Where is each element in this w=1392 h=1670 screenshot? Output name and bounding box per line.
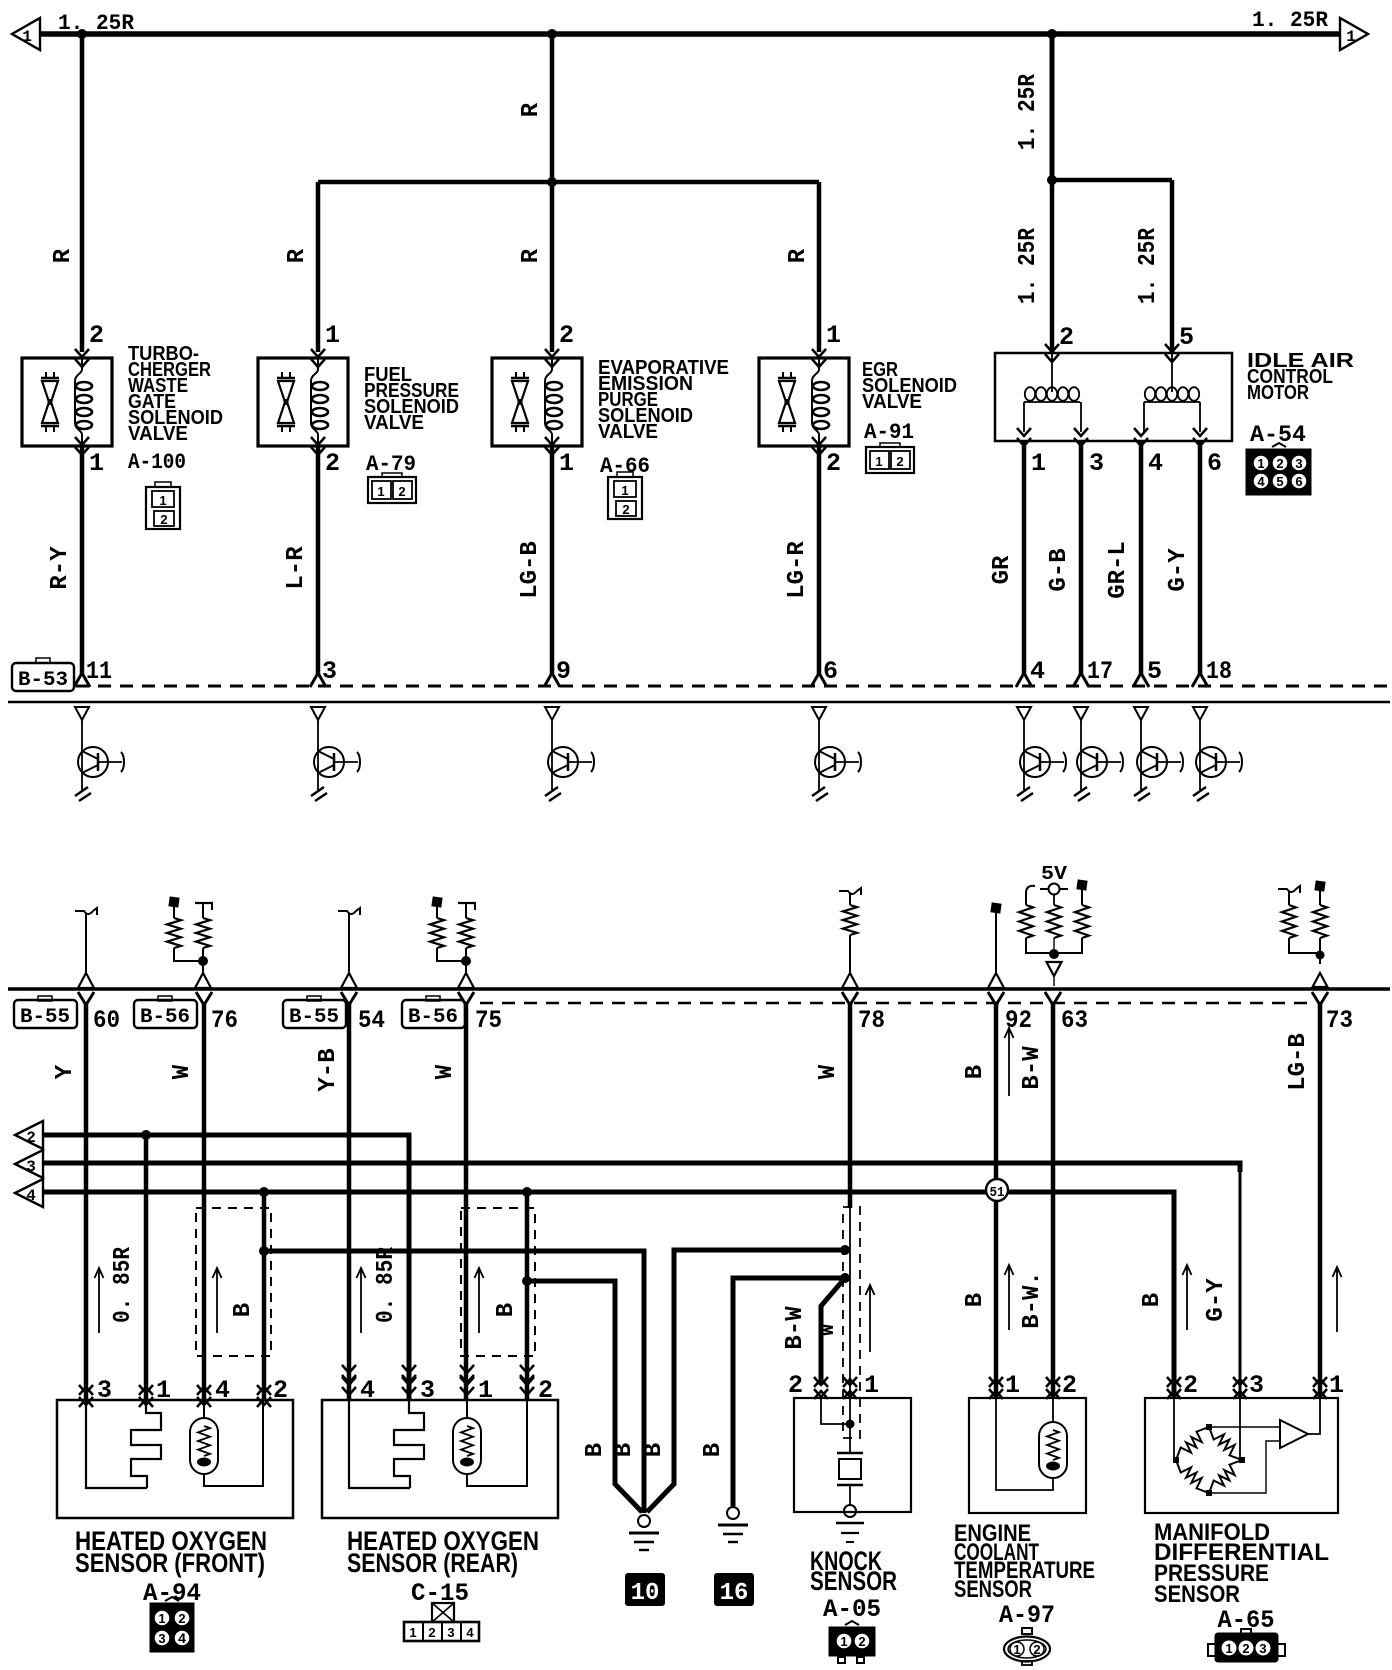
wire 1.25R to IAC pin2 (lower) xyxy=(1050,180,1055,352)
svg-text:63: 63 xyxy=(1061,1006,1088,1035)
label Y xyxy=(52,1064,79,1079)
ECU internal: resistor pair (pin 73) xyxy=(1278,880,1328,987)
svg-text:1: 1 xyxy=(409,1625,416,1640)
svg-text:A-66: A-66 xyxy=(600,454,650,479)
junction dot bus/IAC wire xyxy=(1047,29,1057,39)
component label KNOCK SENSOR xyxy=(810,1546,897,1596)
pin 3 (HO2S front) xyxy=(97,1376,112,1405)
pin 2 (ECT) xyxy=(1062,1371,1077,1400)
svg-text:75: 75 xyxy=(475,1006,502,1035)
wire R-Y (turbo to ECU pin 11) xyxy=(74,446,90,687)
label 1.25R (IAC left lower) xyxy=(1015,227,1042,304)
label B-W (ECT lower) xyxy=(1019,1271,1046,1329)
connector label B-55 (pin 54) xyxy=(283,996,346,1029)
svg-text:B: B xyxy=(700,1443,727,1457)
label W (pin 75 wire) xyxy=(432,1064,459,1079)
svg-text:17: 17 xyxy=(1087,657,1113,686)
label G-B xyxy=(1046,548,1073,591)
svg-text:1: 1 xyxy=(1031,449,1046,478)
pin 5 (IAC top) xyxy=(1179,323,1194,352)
svg-text:B-W: B-W xyxy=(782,1306,809,1350)
junction dot front B / ground lead xyxy=(259,1246,269,1256)
svg-text:3: 3 xyxy=(447,1625,454,1640)
svg-text:3: 3 xyxy=(1259,1641,1266,1656)
junction dot bus4 / HO2S front B xyxy=(259,1187,269,1197)
ECU internal: 5V supply node xyxy=(1040,884,1068,895)
label 0.85R (rear) xyxy=(373,1246,400,1323)
pin 1 (MDP) xyxy=(1329,1371,1344,1400)
splice 51 xyxy=(986,1179,1008,1201)
EGR solenoid valve A-91 xyxy=(759,349,849,455)
wire G-B (IAC to ECU pin 17) xyxy=(1073,441,1089,687)
svg-text:2: 2 xyxy=(160,512,167,527)
svg-text:1: 1 xyxy=(840,1634,847,1649)
pin 1 (ECT) xyxy=(1005,1371,1020,1400)
direction arrow (knock) xyxy=(866,1285,875,1352)
ECU driver transistor Q7 xyxy=(1134,707,1183,801)
svg-text:B: B xyxy=(1139,1293,1166,1307)
svg-text:VALVE: VALVE xyxy=(128,423,188,445)
MDP pin2 internal wire xyxy=(1174,1398,1176,1460)
svg-text:B: B xyxy=(962,1065,989,1079)
pin 17 (ECU) xyxy=(1087,657,1113,686)
pin 1 (fuel valve top) xyxy=(325,321,340,350)
component label EGR SOLENOID VALVE xyxy=(862,359,957,413)
wire 1.25R to IAC pin2 (upper) xyxy=(1050,34,1055,180)
svg-text:5: 5 xyxy=(1179,323,1194,352)
svg-text:1: 1 xyxy=(1013,1642,1020,1657)
manifold differential pressure sensor box xyxy=(1145,1398,1338,1513)
component label FUEL PRESSURE SOLENOID VALVE xyxy=(364,364,459,434)
svg-text:54: 54 xyxy=(358,1006,385,1035)
wire W (pin 76 to HO2S front pin 4) xyxy=(196,992,212,1399)
label B (HO2S front) xyxy=(230,1303,257,1317)
svg-text:73: 73 xyxy=(1326,1006,1353,1035)
HO2S front pin arrows xyxy=(79,1385,271,1407)
ref A-65 xyxy=(1218,1606,1275,1635)
pin 54 xyxy=(358,1006,385,1035)
ECU boundary solid line (section 2) xyxy=(8,987,1390,991)
shield box (HO2S rear cable) xyxy=(461,1208,535,1356)
ground id 10 xyxy=(626,1574,664,1607)
direction arrow (ECT B) xyxy=(1005,1265,1014,1330)
svg-text:1: 1 xyxy=(559,449,574,478)
junction dot rear B / ground lead xyxy=(522,1276,532,1286)
svg-text:18: 18 xyxy=(1206,657,1232,686)
svg-text:1: 1 xyxy=(159,493,166,508)
pin 73 xyxy=(1326,1006,1353,1035)
label B (HO2S rear) xyxy=(493,1303,520,1317)
svg-text:2: 2 xyxy=(428,1625,435,1640)
pin 6 (ECU) xyxy=(823,657,838,686)
svg-text:0. 85R: 0. 85R xyxy=(373,1246,400,1323)
ECU driver transistor Q1 xyxy=(75,707,124,801)
svg-text:2: 2 xyxy=(559,321,574,350)
svg-text:R: R xyxy=(284,248,311,263)
connector icon A-100 xyxy=(146,482,180,529)
svg-text:B: B xyxy=(962,1293,989,1307)
wire 1.25R to IAC pin5 xyxy=(1170,180,1175,352)
svg-text:Y-B: Y-B xyxy=(315,1048,342,1091)
ECU driver transistor Q8 xyxy=(1193,707,1242,801)
HO2S front heater xyxy=(190,1400,263,1486)
svg-text:1. 25R: 1. 25R xyxy=(1015,73,1042,150)
wire B-W (shield drain to knock pin 2) xyxy=(821,1278,845,1385)
svg-text:G-B: G-B xyxy=(1046,548,1073,591)
ECT pin arrows xyxy=(989,1377,1060,1399)
connector label B-55 (pin 60) xyxy=(14,996,77,1029)
component label IDLE AIR CONTROL MOTOR xyxy=(1247,350,1355,404)
fuel pressure solenoid valve A-79 xyxy=(258,349,348,455)
svg-text:VALVE: VALVE xyxy=(862,391,922,413)
svg-text:R: R xyxy=(50,248,77,263)
pin 3 (ECU) xyxy=(322,657,337,686)
svg-text:2: 2 xyxy=(89,321,104,350)
svg-text:R: R xyxy=(785,248,812,263)
svg-text:2: 2 xyxy=(325,449,340,478)
wire B to ground 16 xyxy=(733,1278,845,1506)
pin 1 (turbo valve bottom) xyxy=(89,449,104,478)
junction dot bus/turbo wire xyxy=(77,29,87,39)
label LG-B (pin 73 wire) xyxy=(1285,1033,1312,1091)
ECT thermistor xyxy=(996,1398,1067,1490)
label W (pin 78 wire) xyxy=(815,1064,842,1079)
wire: IAC branch bus xyxy=(1052,178,1172,183)
wire W (pin 78 to knock sensor) xyxy=(842,992,858,1208)
label R (purge wire lower) xyxy=(518,248,545,263)
direction arrow (MDP B) xyxy=(1183,1265,1192,1330)
knock sensor shield box (dashed) xyxy=(843,1207,860,1438)
svg-text:A-97: A-97 xyxy=(999,1601,1055,1630)
pin 4 (IAC bottom) xyxy=(1148,449,1163,478)
wire GR (IAC to ECU pin 4) xyxy=(1016,441,1032,687)
wire LG-B (purge to ECU pin 9) xyxy=(544,446,560,687)
connector icon A-79 xyxy=(368,473,416,503)
component label ENGINE COOLANT TEMPERATURE SENSOR xyxy=(954,1520,1095,1603)
ref A-91 xyxy=(864,420,914,445)
label B (ECT) xyxy=(962,1293,989,1307)
direction arrow (LG-B wire) xyxy=(1333,1267,1342,1332)
direction arrow (Y wire) xyxy=(95,1268,104,1333)
svg-text:1: 1 xyxy=(875,454,882,469)
svg-text:3: 3 xyxy=(158,1631,165,1646)
pin 6 (IAC bottom) xyxy=(1207,449,1222,478)
pin 78 xyxy=(858,1006,885,1035)
svg-text:2: 2 xyxy=(788,1371,803,1400)
junction dot IAC branch xyxy=(1047,175,1057,185)
pin 3 (MDP) xyxy=(1249,1371,1264,1400)
HO2S rear heater xyxy=(453,1400,527,1486)
pin 63 xyxy=(1061,1006,1088,1035)
svg-text:1: 1 xyxy=(22,28,32,46)
connector icon A-94 xyxy=(151,1597,193,1651)
wire bus from triangle 4 (to MDP B) xyxy=(43,1192,1174,1399)
pin 2 (IAC top) xyxy=(1059,323,1074,352)
svg-text:B: B xyxy=(641,1443,668,1457)
wire 0.85R (to HO2S front pin 1) xyxy=(144,1135,149,1399)
junction dot branch/purge xyxy=(547,177,557,187)
label 5V xyxy=(1041,863,1068,885)
svg-text:11: 11 xyxy=(86,657,112,686)
ECU internal: pull wire (pin 54) xyxy=(338,908,360,988)
knock pin arrows xyxy=(814,1377,857,1399)
svg-text:3: 3 xyxy=(26,1158,36,1176)
knock pin2 internal wire xyxy=(821,1398,855,1429)
svg-text:MOTOR: MOTOR xyxy=(1247,382,1309,404)
svg-text:2: 2 xyxy=(896,454,903,469)
pin 1 (IAC bottom) xyxy=(1031,449,1046,478)
pin 3 (HO2S rear) xyxy=(420,1376,435,1405)
pin 1 (purge valve bottom) xyxy=(559,449,574,478)
pin 4 (ECU) xyxy=(1030,657,1045,686)
svg-text:B: B xyxy=(582,1443,609,1457)
label 1.25R (IAC left upper) xyxy=(1015,73,1042,150)
wire bus from triangle 3 (to MDP G-Y) xyxy=(43,1163,1240,1399)
wire B (bus4 to HO2S front pin 2) xyxy=(262,1192,267,1399)
component label HEATED OXYGEN SENSOR (REAR) xyxy=(347,1526,539,1578)
pin 11 (ECU) xyxy=(86,657,112,686)
svg-text:2: 2 xyxy=(1059,323,1074,352)
svg-text:B-55: B-55 xyxy=(20,1006,70,1029)
svg-text:10: 10 xyxy=(631,1580,660,1607)
wire L-R (fuel to ECU pin 3) xyxy=(310,446,326,687)
svg-text:76: 76 xyxy=(211,1006,238,1035)
heated oxygen sensor front box xyxy=(57,1400,293,1518)
svg-text:1. 25R: 1. 25R xyxy=(1252,8,1329,33)
svg-text:1: 1 xyxy=(158,1611,165,1626)
svg-text:B-W: B-W xyxy=(1019,1046,1046,1090)
HO2S rear pin arrows xyxy=(342,1365,534,1395)
svg-text:6: 6 xyxy=(823,657,838,686)
wire G-Y (IAC to ECU pin 18) xyxy=(1192,441,1208,687)
direction arrow (pin 92 wire) xyxy=(1005,1028,1014,1096)
svg-text:1: 1 xyxy=(377,484,384,499)
pin 3 (IAC bottom) xyxy=(1089,449,1104,478)
svg-text:16: 16 xyxy=(720,1580,749,1607)
svg-text:SENSOR (FRONT): SENSOR (FRONT) xyxy=(75,1548,265,1578)
label G-Y xyxy=(1165,548,1192,592)
IAC coil 2 xyxy=(1134,353,1207,446)
pin 2 (EGR valve bottom) xyxy=(826,449,841,478)
ECU driver transistor Q3 xyxy=(545,707,594,801)
svg-text:B: B xyxy=(230,1303,257,1317)
label B (gnd10 left) xyxy=(582,1443,609,1457)
junction dot knock shield upper xyxy=(840,1245,850,1255)
label R-Y xyxy=(47,546,74,590)
svg-text:4: 4 xyxy=(1030,657,1045,686)
label W (pin 76 wire) xyxy=(169,1064,196,1079)
svg-text:R: R xyxy=(518,248,545,263)
ref A-54 xyxy=(1250,422,1306,448)
wire W inside shield xyxy=(849,1208,851,1438)
svg-text:GR: GR xyxy=(989,555,1016,584)
connector icon A-65 xyxy=(1208,1629,1285,1661)
knock sensor box xyxy=(794,1398,911,1512)
svg-text:2: 2 xyxy=(858,1634,865,1649)
component label TURBO-CHERGER WASTE GATE SOLENOID VALVE xyxy=(128,343,223,445)
component label MANIFOLD DIFFERENTIAL PRESSURE SENSOR xyxy=(1154,1519,1329,1608)
label GR xyxy=(989,555,1016,584)
pin 92 xyxy=(1005,1006,1032,1035)
svg-text:B-W.: B-W. xyxy=(1019,1271,1046,1329)
wire Y-B (pin 54 to HO2S rear pin 4) xyxy=(341,992,357,1399)
label LG-B xyxy=(517,541,544,599)
svg-text:B-53: B-53 xyxy=(18,669,68,692)
label G-Y (MDP) xyxy=(1203,1278,1230,1322)
pin 1 (EGR valve top) xyxy=(826,321,841,350)
wire R to EGR valve xyxy=(817,182,822,352)
pin 1 (HO2S rear) xyxy=(478,1376,493,1405)
svg-text:B-56: B-56 xyxy=(140,1006,190,1029)
svg-text:VALVE: VALVE xyxy=(598,421,658,443)
ECU driver transistor Q2 xyxy=(311,707,360,801)
ECU internal: resistor (pin 78) xyxy=(839,888,861,988)
junction dot knock shield lower xyxy=(840,1273,850,1283)
label 1.25R (IAC right) xyxy=(1135,227,1162,304)
ref A-97 xyxy=(999,1601,1055,1630)
label 0.85R (front) xyxy=(110,1246,137,1323)
svg-text:R-Y: R-Y xyxy=(47,546,74,590)
svg-text:B: B xyxy=(611,1443,638,1457)
MDP amplifier xyxy=(1209,1398,1320,1493)
ref A-100 xyxy=(128,450,186,475)
connector icon A-05 xyxy=(830,1621,874,1663)
ref C-15 xyxy=(411,1579,469,1608)
wire bus from triangle 2 xyxy=(43,1135,409,1399)
svg-text:51: 51 xyxy=(990,1185,1005,1201)
svg-text:4: 4 xyxy=(178,1630,186,1646)
pin 60 xyxy=(93,1006,120,1035)
svg-text:1: 1 xyxy=(89,449,104,478)
svg-text:2: 2 xyxy=(826,449,841,478)
svg-text:A-65: A-65 xyxy=(1218,1606,1275,1635)
connector icon A-54 xyxy=(1247,443,1310,494)
svg-text:1. 25R: 1. 25R xyxy=(1135,227,1162,304)
svg-text:1: 1 xyxy=(1005,1371,1020,1400)
svg-text:B: B xyxy=(493,1303,520,1317)
label B (pin 92 wire) xyxy=(962,1065,989,1079)
svg-text:4: 4 xyxy=(1148,449,1163,478)
pin 5 (ECU) xyxy=(1147,657,1162,686)
label 1.25R (top right) xyxy=(1252,8,1329,33)
svg-text:2: 2 xyxy=(1276,456,1283,471)
turbocharger waste gate solenoid valve A-100 xyxy=(22,349,112,455)
label B-W (upper) xyxy=(1019,1046,1046,1090)
svg-text:L-R: L-R xyxy=(283,546,310,590)
wire GR-L (IAC to ECU pin 5) xyxy=(1133,441,1149,687)
svg-text:2: 2 xyxy=(1183,1371,1198,1400)
wire: branch bus at y182 xyxy=(318,180,819,185)
knock ground xyxy=(836,1505,864,1542)
IAC coil 1 xyxy=(1017,353,1088,446)
HO2S rear sensing element xyxy=(349,1400,424,1488)
svg-text:SENSOR: SENSOR xyxy=(954,1576,1032,1603)
label GR-L xyxy=(1105,541,1132,599)
wire LG-R (EGR to ECU pin 6) xyxy=(811,446,827,687)
svg-text:4: 4 xyxy=(1257,474,1265,489)
shield box (HO2S front cable) xyxy=(196,1208,271,1356)
svg-text:78: 78 xyxy=(858,1006,885,1035)
pin 1 (HO2S front) xyxy=(156,1376,171,1405)
connector triangle 1 (right) xyxy=(1340,18,1368,50)
HO2S front sensing element xyxy=(86,1400,161,1488)
connector icon A-97 xyxy=(1004,1628,1050,1665)
svg-text:1: 1 xyxy=(1225,1641,1232,1656)
svg-text:0. 85R: 0. 85R xyxy=(110,1246,137,1323)
pin 2 (HO2S front) xyxy=(273,1376,288,1405)
engine coolant temperature sensor box xyxy=(969,1398,1086,1513)
direction arrow (front W wire) xyxy=(213,1268,222,1333)
ref A-94 xyxy=(143,1579,201,1608)
connector icon A-91 xyxy=(866,443,914,473)
pin 2 (MDP) xyxy=(1183,1371,1198,1400)
label B (gnd10 mid) xyxy=(611,1443,638,1457)
wire B (pin 92 to ECT pin 1) xyxy=(988,992,1004,1399)
ECU driver transistor Q6 xyxy=(1074,707,1123,801)
evaporative emission purge solenoid valve A-66 xyxy=(492,349,582,455)
svg-text:A-91: A-91 xyxy=(864,420,914,445)
svg-text:2: 2 xyxy=(398,484,405,499)
svg-text:W: W xyxy=(169,1064,196,1079)
pin 76 xyxy=(211,1006,238,1035)
svg-text:1: 1 xyxy=(826,321,841,350)
label 1.25R (top left) xyxy=(58,11,135,36)
ground symbol 10 xyxy=(629,1515,659,1550)
svg-text:5: 5 xyxy=(1147,657,1162,686)
svg-text:VALVE: VALVE xyxy=(364,412,424,434)
knock piezo element xyxy=(837,1438,863,1506)
direction arrow (Y-B wire) xyxy=(357,1268,366,1333)
svg-text:SENSOR (REAR): SENSOR (REAR) xyxy=(347,1548,518,1578)
connector icon C-15 xyxy=(404,1603,479,1641)
svg-text:2: 2 xyxy=(178,1611,185,1626)
junction dot bus2 / 0.85R wire xyxy=(141,1130,151,1140)
svg-text:G-Y: G-Y xyxy=(1165,548,1192,592)
svg-text:1: 1 xyxy=(1346,28,1356,46)
wire R to purge valve (upper) xyxy=(550,34,555,352)
label B (MDP) xyxy=(1139,1293,1166,1307)
wire Y (pin 60 to HO2S front pin 3) xyxy=(78,992,94,1399)
ECU internal: resistor pair (pin 76) xyxy=(167,896,213,988)
label R (turbo wire) xyxy=(50,248,77,263)
pin 18 (ECU) xyxy=(1206,657,1232,686)
svg-text:6: 6 xyxy=(1207,449,1222,478)
component label EVAPORATIVE EMISSION PURGE SOLENOID VALVE xyxy=(598,357,729,443)
MDP bridge xyxy=(1173,1424,1245,1496)
svg-text:B-55: B-55 xyxy=(289,1006,339,1029)
svg-text:1: 1 xyxy=(325,321,340,350)
pin 4 (HO2S rear) xyxy=(360,1376,375,1405)
svg-text:2: 2 xyxy=(1242,1641,1249,1656)
connector icon A-66 xyxy=(608,472,642,519)
connector triangle 4 xyxy=(15,1179,43,1207)
label B-W (knock) xyxy=(782,1306,809,1350)
pin 2 (turbo valve top) xyxy=(89,321,104,350)
connector label B-53 xyxy=(12,658,74,692)
pin 2 (purge valve top) xyxy=(559,321,574,350)
svg-text:LG-B: LG-B xyxy=(1285,1033,1312,1091)
label B (gnd16) xyxy=(700,1443,727,1457)
connector label B-56 (pin 76) xyxy=(134,996,197,1029)
ECU driver transistor Q5 xyxy=(1017,707,1066,801)
ground symbol 16 xyxy=(718,1507,748,1542)
svg-text:3: 3 xyxy=(322,657,337,686)
wire R to fuel pressure valve xyxy=(316,182,321,352)
label LG-R xyxy=(784,541,811,599)
connector label B-56 (pin 75) xyxy=(402,996,465,1029)
pin 2 (fuel valve bottom) xyxy=(325,449,340,478)
svg-text:1: 1 xyxy=(1257,456,1264,471)
